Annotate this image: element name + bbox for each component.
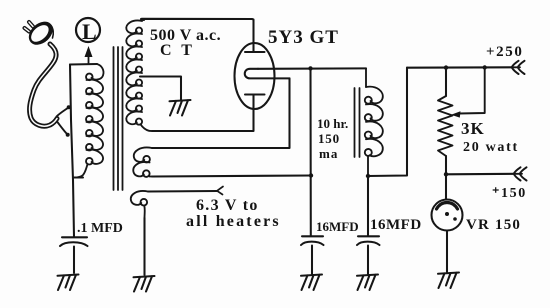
svg-text:VR 150: VR 150 xyxy=(466,217,521,233)
5Y3 filament xyxy=(245,69,290,79)
choke L1 10hr 150ma xyxy=(365,68,383,176)
transformer T1 primary xyxy=(74,64,104,178)
wire: top rail secondary to rectifier plate xyxy=(141,19,254,52)
5Y3 bottom plate xyxy=(245,93,265,95)
wire: resistor bottom to +150 node xyxy=(445,156,447,200)
svg-text:150: 150 xyxy=(318,131,340,146)
arrow to L xyxy=(85,46,93,64)
wire: VR150 cathode to ground xyxy=(446,231,448,273)
rectifier tube 5Y3GT envelope xyxy=(235,43,275,109)
junction node cap2/choke out xyxy=(366,174,370,178)
5Y3 top plate xyxy=(245,51,265,53)
wire: 5V winding bottom to filter node xyxy=(152,176,311,177)
wire: filament return to 5V winding xyxy=(152,78,290,148)
wire: 6.3V winding to ground xyxy=(143,218,145,275)
output terminal +150 xyxy=(514,167,527,180)
wire: primary bottom lead xyxy=(74,176,83,178)
capacitor C1 .1MFD xyxy=(60,237,88,273)
svg-text:16MFD: 16MFD xyxy=(370,217,422,233)
transformer 6.3V heater winding xyxy=(131,191,148,218)
svg-text:16MFD: 16MFD xyxy=(316,219,359,234)
choke core xyxy=(355,88,360,157)
svg-text:L: L xyxy=(82,19,97,44)
ground (VR150) xyxy=(438,273,459,289)
svg-text:.1 MFD: .1 MFD xyxy=(77,221,123,236)
ground (cap1) xyxy=(301,275,322,291)
junction node tap riser xyxy=(483,65,487,69)
line cord xyxy=(30,44,71,137)
svg-text:20 watt: 20 watt xyxy=(463,140,519,155)
transformer 5V winding xyxy=(133,148,152,177)
svg-text:C T: C T xyxy=(160,42,195,59)
svg-text:all heaters: all heaters xyxy=(186,213,281,230)
wire: rail to resistor xyxy=(445,68,447,96)
svg-text:ma: ma xyxy=(319,146,338,161)
svg-text:6.3 V to: 6.3 V to xyxy=(196,197,259,214)
capacitor C2 16MFD (input) xyxy=(301,236,324,274)
junction node +150 xyxy=(444,172,448,176)
output terminal +250 xyxy=(512,61,525,74)
wire: cap2 drop xyxy=(367,176,369,236)
ground (6.3V) xyxy=(134,276,155,292)
wire: +150 rail xyxy=(446,173,515,176)
junction node filament/choke xyxy=(308,66,312,70)
ground (cap2) xyxy=(357,275,378,291)
text 10hr 150ma xyxy=(317,116,348,161)
voltage regulator tube VR150 xyxy=(432,200,463,231)
capacitor C3 16MFD (output) xyxy=(357,236,380,274)
svg-text:5Y3 GT: 5Y3 GT xyxy=(268,27,339,48)
wire: +250 rail xyxy=(407,66,512,68)
junction node resistor top xyxy=(444,65,448,69)
wire: line vertical bus xyxy=(70,65,74,238)
ground (.1MFD) xyxy=(58,275,79,291)
svg-text:⁺150: ⁺150 xyxy=(492,186,527,201)
wire: CT tap xyxy=(140,77,181,101)
pilot lamp L (circled L) xyxy=(76,18,100,44)
wire: filament output line xyxy=(258,67,366,69)
wire: filter node vertical xyxy=(309,68,311,236)
resistor R1 3K 20 watt xyxy=(438,96,453,156)
svg-text:+250: +250 xyxy=(486,44,523,60)
svg-text:3K: 3K xyxy=(461,119,485,138)
svg-text:10 hr.: 10 hr. xyxy=(317,116,348,131)
wire: heater lead xyxy=(148,187,223,195)
junction node cap1 xyxy=(309,173,313,177)
wire: choke out to +250 riser xyxy=(368,68,407,176)
transformer core xyxy=(114,47,123,190)
plug P1 (AC line plug) xyxy=(24,17,57,49)
ground (CT) xyxy=(170,100,191,116)
transformer T1 HV secondary 500V CT xyxy=(126,20,152,131)
adjustable tap arrow xyxy=(451,68,485,118)
wire: line conductor to primary top xyxy=(70,63,97,66)
wire: bottom plate to secondary bottom xyxy=(152,95,254,132)
